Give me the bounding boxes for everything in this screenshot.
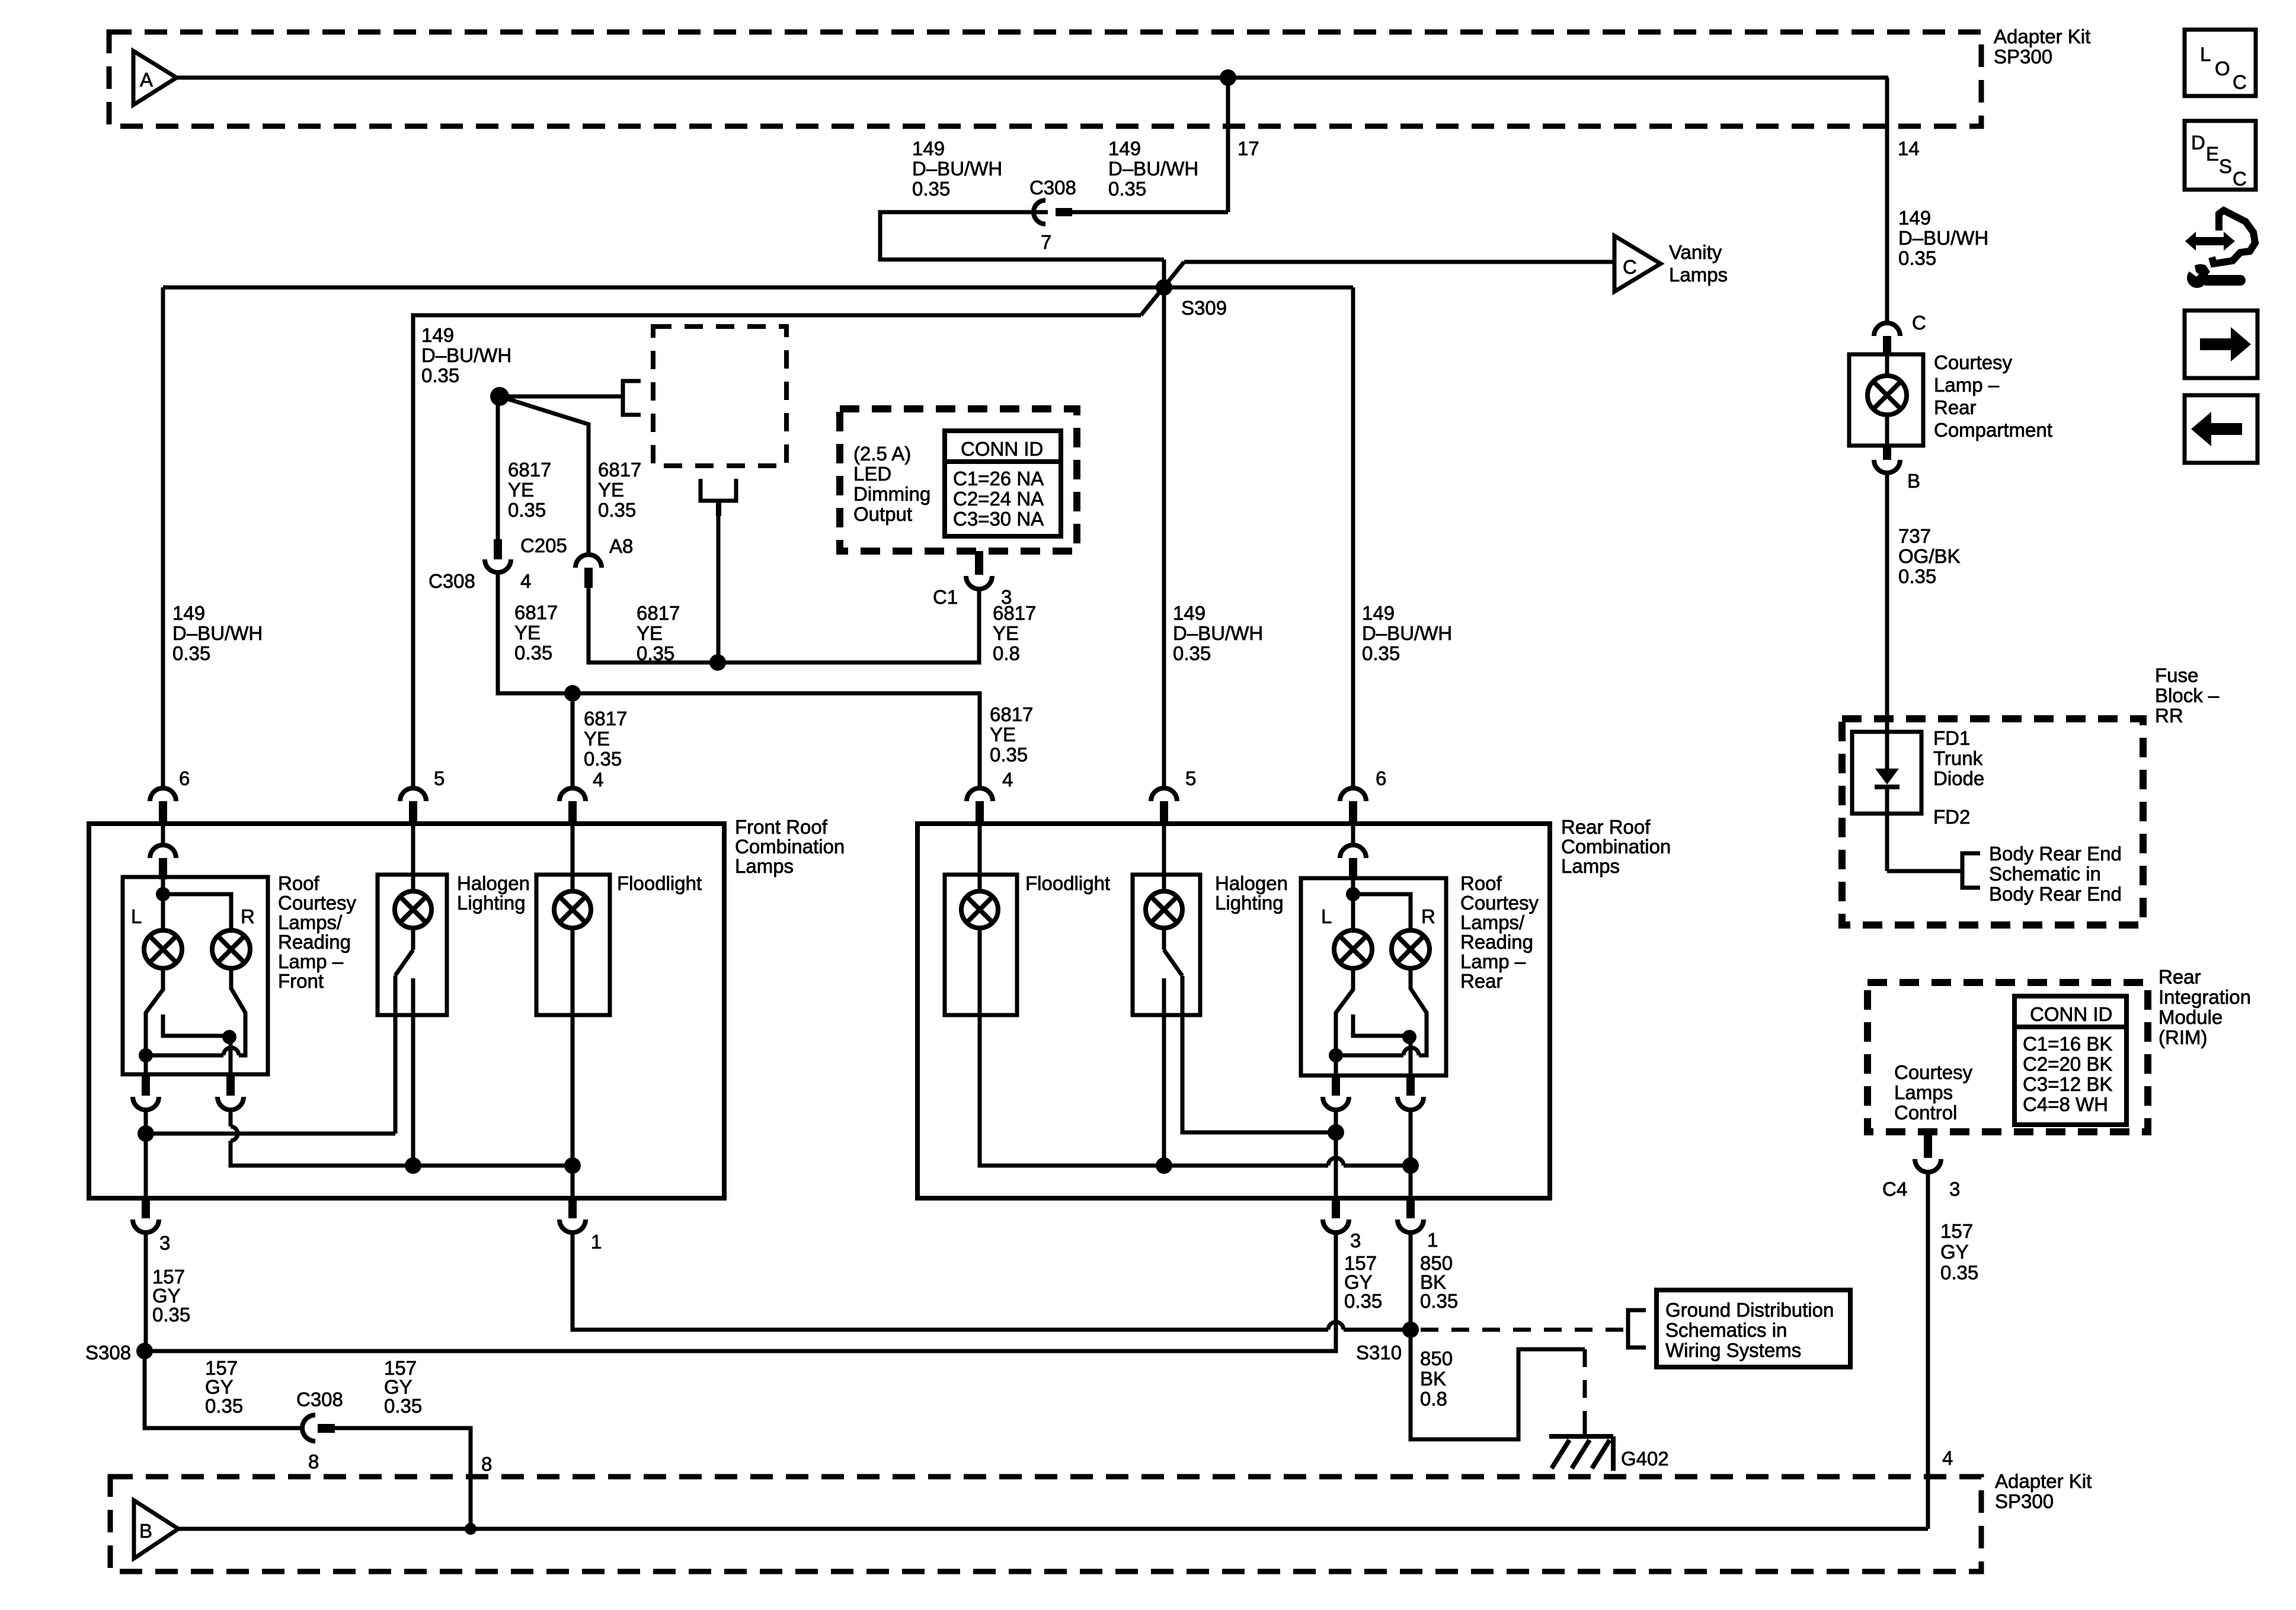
svg-text:Combination: Combination bbox=[735, 836, 845, 857]
svg-text:YE: YE bbox=[993, 622, 1019, 644]
inline connector C308 pin 7 (male terminal) bbox=[1056, 208, 1072, 216]
bulb floodlight (rear) bbox=[961, 891, 998, 928]
terminal prongs at module bottom bbox=[701, 479, 736, 501]
svg-text:737: 737 bbox=[1898, 525, 1931, 547]
wire front pin 3 to S308 bbox=[144, 1233, 148, 1351]
svg-text:Roof: Roof bbox=[1460, 872, 1502, 894]
svg-text:C308: C308 bbox=[296, 1388, 343, 1410]
connector pin 3 (front box bottom) bbox=[142, 1198, 150, 1218]
junction on L exit (front inner) bbox=[139, 1048, 153, 1062]
svg-text:Body Rear End: Body Rear End bbox=[1989, 843, 2122, 865]
svg-text:C: C bbox=[2233, 71, 2247, 93]
svg-text:6817: 6817 bbox=[637, 602, 680, 624]
svg-text:G402: G402 bbox=[1621, 1448, 1669, 1470]
Rear Integration Module box bbox=[1868, 982, 2148, 1132]
inline connector C308 pin 8 (male terminal) bbox=[318, 1424, 335, 1433]
connector A8 (dome + stub) bbox=[575, 555, 602, 568]
wire front pin 1 to S310 bbox=[573, 1233, 1328, 1330]
wire inner link to L exit (rear) bbox=[1336, 1054, 1403, 1058]
wire adapter B (157 circuit) bbox=[178, 1527, 1928, 1531]
svg-text:0.35: 0.35 bbox=[514, 642, 552, 664]
svg-text:Lamps: Lamps bbox=[1561, 855, 1620, 877]
svg-text:6817: 6817 bbox=[598, 459, 641, 481]
svg-text:8: 8 bbox=[308, 1451, 319, 1473]
wire rear pin 3 down to S308 run bbox=[145, 1233, 1336, 1351]
diagonal splice branch to A8 bbox=[500, 396, 589, 555]
CONN ID table (RIM) bbox=[2014, 996, 2126, 1125]
connector R exit (front courtesy) bbox=[226, 1076, 235, 1096]
svg-text:Body Rear End: Body Rear End bbox=[1989, 883, 2122, 905]
wire 737 OG/BK to fuse block bbox=[1885, 473, 1889, 719]
junction H1 on L exit wire (front) bbox=[137, 1125, 154, 1142]
Fuse Block - RR box bbox=[1842, 719, 2143, 925]
terminal bracket (ground distribution reference) bbox=[1628, 1310, 1646, 1347]
svg-text:Lamp –: Lamp – bbox=[1460, 950, 1526, 972]
svg-text:5: 5 bbox=[1185, 767, 1196, 789]
wire into diode bbox=[1885, 719, 1889, 770]
svg-text:Front Roof: Front Roof bbox=[735, 816, 828, 838]
wire R bulb return (front) bbox=[231, 968, 245, 1055]
bulb halogen (rear) bbox=[1146, 891, 1182, 928]
wire R exit down to pin 1 (rear) bbox=[1409, 1110, 1413, 1199]
svg-text:Module: Module bbox=[2159, 1006, 2223, 1028]
svg-text:6817: 6817 bbox=[514, 601, 558, 623]
wire drop to front floodlight pin 4 bbox=[571, 693, 575, 789]
svg-text:OG/BK: OG/BK bbox=[1898, 545, 1961, 567]
svg-text:C4=8 WH: C4=8 WH bbox=[2023, 1093, 2108, 1115]
svg-text:850: 850 bbox=[1420, 1347, 1453, 1369]
svg-text:L: L bbox=[2200, 43, 2211, 65]
junction halogen return on H2 (front) bbox=[405, 1157, 421, 1174]
connector C205/C308 pin 4 (stub + bowl) bbox=[494, 539, 502, 559]
svg-text:Output: Output bbox=[853, 503, 912, 525]
wire C308-7 to S309 bbox=[880, 212, 1164, 260]
inner connector (rear courtesy feed) bbox=[1351, 825, 1355, 846]
svg-text:157: 157 bbox=[1940, 1220, 1973, 1242]
svg-text:3: 3 bbox=[1949, 1178, 1960, 1200]
connector C4 of RIM (stub + bowl) bbox=[1924, 1132, 1932, 1158]
crossover bump (rear inner) bbox=[1403, 1048, 1419, 1055]
svg-text:Halogen: Halogen bbox=[1215, 872, 1288, 894]
svg-text:0.8: 0.8 bbox=[993, 642, 1020, 664]
icon DESC bbox=[2185, 121, 2256, 190]
svg-text:4: 4 bbox=[1002, 769, 1013, 790]
roof courtesy lamps rear inner box bbox=[1301, 878, 1446, 1076]
wire A feed (149 circuit) bbox=[177, 76, 1888, 80]
svg-text:A8: A8 bbox=[609, 535, 633, 557]
svg-text:0.35: 0.35 bbox=[1173, 642, 1211, 664]
terminal stub path to R exit (front inner) bbox=[163, 1014, 229, 1036]
svg-text:B: B bbox=[139, 1520, 152, 1542]
svg-text:Rear Roof: Rear Roof bbox=[1561, 816, 1651, 838]
svg-text:RR: RR bbox=[2155, 705, 2183, 726]
rear roof combination lamps box bbox=[917, 824, 1550, 1198]
wire S310 to ground G402 bbox=[1411, 1330, 1585, 1439]
svg-text:Vanity: Vanity bbox=[1669, 241, 1722, 263]
svg-text:0.35: 0.35 bbox=[637, 642, 674, 664]
svg-text:0.35: 0.35 bbox=[598, 499, 636, 521]
svg-text:C205: C205 bbox=[520, 534, 567, 556]
svg-text:Halogen: Halogen bbox=[457, 872, 530, 894]
svg-text:0.35: 0.35 bbox=[1420, 1290, 1458, 1312]
wire S309 lower-left branch to front halogen pin 5 bbox=[413, 315, 1141, 789]
svg-text:Adapter Kit: Adapter Kit bbox=[1994, 25, 2090, 47]
svg-text:Courtesy: Courtesy bbox=[1460, 892, 1539, 914]
svg-text:C4: C4 bbox=[1882, 1178, 1907, 1200]
svg-text:0.8: 0.8 bbox=[1420, 1388, 1447, 1410]
svg-text:S310: S310 bbox=[1356, 1342, 1402, 1363]
wire from junction down to C308 pin 7 bbox=[1226, 78, 1230, 212]
connector triangle B bbox=[134, 1500, 178, 1558]
svg-text:Courtesy: Courtesy bbox=[1894, 1061, 1973, 1083]
svg-text:B: B bbox=[1907, 470, 1920, 492]
svg-text:0.35: 0.35 bbox=[1940, 1262, 1978, 1283]
svg-text:FD1: FD1 bbox=[1933, 727, 1970, 749]
icon wiring-repair (double arrow + wrench) bbox=[2185, 210, 2255, 288]
svg-text:0.35: 0.35 bbox=[584, 748, 622, 770]
svg-text:Adapter Kit: Adapter Kit bbox=[1995, 1470, 2092, 1492]
splice S308 bbox=[136, 1343, 153, 1359]
svg-text:Front: Front bbox=[278, 970, 324, 992]
svg-text:4: 4 bbox=[1942, 1447, 1953, 1469]
svg-text:L: L bbox=[131, 905, 142, 927]
splice of LED dimming output bbox=[490, 387, 509, 406]
svg-text:0.35: 0.35 bbox=[152, 1304, 190, 1326]
svg-text:Lighting: Lighting bbox=[1215, 892, 1284, 914]
node courtesy feed split (front) bbox=[156, 887, 170, 901]
terminal bracket (body rear end reference) bbox=[1962, 853, 1980, 888]
svg-text:0.35: 0.35 bbox=[1362, 642, 1400, 664]
svg-text:5: 5 bbox=[434, 767, 445, 789]
wire R bulb return (rear) bbox=[1411, 968, 1427, 1055]
courtesy lamp rear compartment box bbox=[1849, 354, 1923, 446]
ground G402 bbox=[1549, 1434, 1613, 1439]
svg-text:Floodlight: Floodlight bbox=[1025, 872, 1110, 894]
svg-text:D–BU/WH: D–BU/WH bbox=[1898, 227, 1988, 249]
svg-text:Rear: Rear bbox=[1934, 396, 1977, 418]
svg-text:Combination: Combination bbox=[1561, 836, 1671, 857]
wire to vanity lamps bbox=[1184, 260, 1614, 264]
svg-text:Diode: Diode bbox=[1933, 767, 1984, 789]
wire front courtesy pin 6 drop bbox=[161, 287, 165, 789]
svg-text:0.35: 0.35 bbox=[1898, 247, 1936, 269]
wire pin 5 into halogen (rear) bbox=[1162, 825, 1166, 892]
connector pin 1 (rear box bottom) bbox=[1406, 1198, 1415, 1218]
svg-text:149: 149 bbox=[1108, 137, 1141, 159]
svg-text:YE: YE bbox=[637, 622, 663, 644]
wire 157 GY from RIM C4 bbox=[1926, 1172, 1930, 1529]
switch stationary contact wire (front) bbox=[411, 978, 415, 1166]
svg-text:Lamp –: Lamp – bbox=[278, 950, 344, 972]
connector pin 1 (front box bottom) bbox=[568, 1198, 577, 1218]
bulb floodlight (front) bbox=[554, 891, 591, 928]
svg-text:Lamps: Lamps bbox=[735, 855, 794, 877]
svg-text:C1=26 NA: C1=26 NA bbox=[953, 468, 1044, 489]
svg-text:Floodlight: Floodlight bbox=[617, 872, 702, 894]
terminal stub path to R exit (rear inner) bbox=[1353, 1014, 1409, 1036]
roof courtesy lamps front inner box bbox=[123, 877, 268, 1074]
svg-text:0.35: 0.35 bbox=[508, 499, 546, 521]
svg-text:SP300: SP300 bbox=[1995, 1490, 2054, 1512]
svg-text:YE: YE bbox=[990, 724, 1016, 745]
dashed wire S310 to ground distribution reference bbox=[1421, 1328, 1628, 1332]
svg-text:BK: BK bbox=[1420, 1368, 1446, 1390]
svg-text:Courtesy: Courtesy bbox=[1934, 351, 2013, 373]
connector triangle A bbox=[133, 51, 177, 105]
wire FD2 to body rear end reference bbox=[1887, 869, 1962, 873]
junction to front floodlight pin 4 bbox=[564, 685, 581, 702]
svg-text:LED: LED bbox=[853, 463, 891, 485]
inline connector C308 pin 8 (female arc) bbox=[302, 1415, 315, 1441]
junction floodlight/H2 (front) bbox=[564, 1157, 581, 1174]
terminal bracket of dimming module bbox=[623, 381, 641, 415]
crossover bump (front inner) bbox=[223, 1048, 239, 1055]
svg-text:D–BU/WH: D–BU/WH bbox=[172, 622, 263, 644]
icon back arrow bbox=[2185, 395, 2257, 463]
icon LOC bbox=[2185, 30, 2256, 96]
wire splice down to C308 pin 4 bbox=[496, 396, 500, 540]
svg-text:Schematics in: Schematics in bbox=[1665, 1319, 1787, 1341]
wire pin 14 down to connector C bbox=[1885, 78, 1889, 324]
bump over rear L exit wire bbox=[1328, 1158, 1344, 1166]
svg-text:YE: YE bbox=[584, 728, 610, 750]
ground distribution schematics box bbox=[1657, 1290, 1850, 1367]
svg-text:L: L bbox=[1321, 905, 1332, 927]
FD1 trunk diode box bbox=[1852, 732, 1921, 814]
svg-text:6817: 6817 bbox=[508, 459, 551, 481]
svg-text:7: 7 bbox=[1041, 231, 1051, 253]
svg-text:Lamps: Lamps bbox=[1894, 1081, 1953, 1103]
wire inner link to L exit (front) bbox=[146, 1054, 223, 1058]
svg-text:Compartment: Compartment bbox=[1934, 419, 2052, 441]
junction on adapter B wire bbox=[465, 1523, 477, 1535]
connector pin 6 (rear box) bbox=[1340, 788, 1366, 801]
svg-text:Lighting: Lighting bbox=[457, 892, 526, 914]
wire S309 vertical (to rear halogen pin 5) bbox=[1162, 260, 1166, 789]
switch stationary contact wire (rear) bbox=[1162, 978, 1166, 1166]
svg-text:CONN ID: CONN ID bbox=[961, 438, 1043, 460]
svg-text:Dimming: Dimming bbox=[853, 483, 930, 505]
bulb L (front courtesy) bbox=[144, 930, 182, 968]
svg-text:D–BU/WH: D–BU/WH bbox=[912, 158, 1002, 180]
svg-text:D: D bbox=[2191, 132, 2205, 153]
connector pin 6 (front box) bbox=[150, 788, 176, 801]
svg-text:6817: 6817 bbox=[584, 708, 627, 729]
junction H2 on R exit wire (rear) bbox=[1402, 1157, 1419, 1174]
bulb halogen (front) bbox=[395, 891, 431, 928]
svg-text:YE: YE bbox=[508, 479, 534, 501]
wire R exit with jog over H1 (front) bbox=[229, 1110, 233, 1126]
wire rear courtesy pin 6 drop bbox=[1351, 287, 1355, 789]
svg-text:Lamps/: Lamps/ bbox=[278, 911, 343, 933]
svg-text:C308: C308 bbox=[428, 570, 475, 592]
svg-text:0.35: 0.35 bbox=[205, 1395, 243, 1417]
connector R exit (rear courtesy) bbox=[1406, 1076, 1415, 1096]
connector C1 of LED module (stub + bowl) bbox=[975, 551, 983, 575]
inner connector (front courtesy feed) bbox=[161, 825, 165, 846]
svg-text:R: R bbox=[1421, 905, 1435, 927]
svg-text:Wiring Systems: Wiring Systems bbox=[1665, 1339, 1801, 1361]
wire pin 4 into floodlight (rear) bbox=[978, 825, 982, 892]
connector pin 5 (front box) bbox=[400, 788, 426, 801]
wire C308-8 to adapter B wire bbox=[335, 1428, 471, 1529]
bulb R (rear courtesy) bbox=[1392, 930, 1430, 968]
svg-text:8: 8 bbox=[481, 1453, 492, 1475]
inline connector C308 pin 7 (female arc) bbox=[1034, 200, 1045, 224]
wire rear pin 1 down to S310 bbox=[1409, 1233, 1413, 1330]
svg-text:6817: 6817 bbox=[993, 602, 1036, 624]
svg-text:D–BU/WH: D–BU/WH bbox=[421, 344, 511, 366]
svg-text:Reading: Reading bbox=[278, 931, 351, 953]
wire L bulb return (rear) bbox=[1336, 968, 1353, 1077]
wire L exit down to pin 3 (front) bbox=[144, 1110, 148, 1199]
switch halogen (rear) bbox=[1162, 928, 1166, 950]
svg-text:6817: 6817 bbox=[990, 703, 1033, 725]
svg-text:GY: GY bbox=[1940, 1241, 1969, 1263]
svg-text:3: 3 bbox=[1350, 1230, 1361, 1251]
node courtesy feed split (rear) bbox=[1346, 887, 1360, 901]
svg-text:D–BU/WH: D–BU/WH bbox=[1362, 622, 1452, 644]
svg-text:Reading: Reading bbox=[1460, 931, 1533, 953]
stub of module bottom terminal bbox=[716, 501, 721, 516]
svg-text:4: 4 bbox=[593, 769, 603, 790]
connector L exit (front courtesy) bbox=[142, 1076, 150, 1096]
bulb L (rear courtesy) bbox=[1334, 930, 1372, 968]
svg-text:CONN ID: CONN ID bbox=[2030, 1003, 2112, 1025]
svg-text:6: 6 bbox=[1376, 767, 1386, 789]
halogen lighting box (front) bbox=[378, 875, 447, 1015]
svg-text:SP300: SP300 bbox=[1994, 46, 2052, 68]
CONN ID table (LED box) bbox=[945, 431, 1061, 536]
Adapter Kit SP300 box (bottom) bbox=[110, 1477, 1981, 1571]
connector pin 5 (rear box) bbox=[1151, 788, 1177, 801]
svg-text:FD2: FD2 bbox=[1933, 806, 1970, 828]
Adapter Kit SP300 box (top) bbox=[109, 32, 1981, 126]
connector B of courtesy lamp (stub + bowl) bbox=[1883, 446, 1891, 460]
wire pin 5 into halogen (front) bbox=[411, 825, 415, 892]
svg-text:0.35: 0.35 bbox=[384, 1395, 422, 1417]
svg-text:C3=12 BK: C3=12 BK bbox=[2023, 1073, 2112, 1095]
svg-text:C1=16 BK: C1=16 BK bbox=[2023, 1033, 2112, 1055]
svg-text:149: 149 bbox=[1362, 602, 1395, 624]
S309 diagonal branch bbox=[1141, 262, 1184, 315]
svg-text:Ground Distribution: Ground Distribution bbox=[1665, 1299, 1834, 1321]
svg-text:(2.5 A): (2.5 A) bbox=[853, 443, 911, 465]
svg-text:C: C bbox=[1623, 256, 1637, 278]
wire L bulb return (front) bbox=[146, 968, 163, 1077]
front roof combination lamps box bbox=[89, 824, 724, 1198]
wire pin 4 into floodlight (front) bbox=[571, 825, 575, 892]
wire splice to module terminal bbox=[500, 395, 623, 399]
bump over rear pin 3 wire bbox=[1328, 1322, 1344, 1330]
svg-text:C: C bbox=[1912, 312, 1926, 334]
svg-text:YE: YE bbox=[598, 479, 624, 501]
icon forward arrow bbox=[2185, 311, 2257, 378]
junction on L exit (rear inner) bbox=[1329, 1048, 1343, 1062]
splice S309 bbox=[1156, 279, 1172, 296]
svg-text:14: 14 bbox=[1898, 137, 1920, 159]
svg-text:R: R bbox=[241, 905, 255, 927]
svg-text:E: E bbox=[2206, 143, 2219, 165]
svg-text:4: 4 bbox=[520, 570, 531, 592]
svg-text:17: 17 bbox=[1237, 137, 1259, 159]
svg-text:YE: YE bbox=[514, 622, 541, 644]
junction on wire A bbox=[1220, 69, 1236, 86]
wire A8 down to C1 run bbox=[589, 587, 979, 662]
svg-text:149: 149 bbox=[421, 324, 454, 346]
svg-text:3: 3 bbox=[159, 1232, 170, 1254]
svg-text:O: O bbox=[2215, 57, 2230, 79]
svg-text:Lamps: Lamps bbox=[1669, 264, 1728, 286]
connector triangle C (vanity lamps) bbox=[1614, 236, 1661, 292]
svg-text:C: C bbox=[2233, 168, 2247, 190]
wire S308 down to C308 pin 8 bbox=[145, 1351, 303, 1428]
connector L exit (rear courtesy) bbox=[1332, 1076, 1340, 1096]
switch halogen (front) bbox=[411, 928, 415, 950]
svg-text:Roof: Roof bbox=[278, 872, 320, 894]
svg-text:149: 149 bbox=[1173, 602, 1205, 624]
bulb courtesy lamp rear compartment bbox=[1868, 376, 1907, 415]
svg-text:1: 1 bbox=[591, 1231, 602, 1253]
wire module bottom terminal down bbox=[717, 514, 721, 662]
svg-text:6: 6 bbox=[179, 767, 190, 789]
junction halogen return on H2 (rear) bbox=[1156, 1157, 1172, 1174]
wire S309 horizontal (front pin 6 to rear pin 6) bbox=[163, 286, 1353, 290]
svg-text:C2=20 BK: C2=20 BK bbox=[2023, 1053, 2112, 1075]
svg-text:C1: C1 bbox=[933, 586, 958, 608]
connector pin 4 (front box) bbox=[559, 788, 586, 801]
svg-text:0.35: 0.35 bbox=[1108, 178, 1146, 200]
svg-text:S308: S308 bbox=[85, 1342, 131, 1363]
LED dimming output box bbox=[840, 409, 1077, 551]
svg-text:D–BU/WH: D–BU/WH bbox=[1173, 622, 1263, 644]
svg-text:Lamps/: Lamps/ bbox=[1460, 911, 1525, 933]
svg-text:Integration: Integration bbox=[2159, 986, 2251, 1008]
svg-text:1: 1 bbox=[1427, 1229, 1438, 1251]
svg-text:S: S bbox=[2219, 155, 2232, 177]
wire floodlight return to pin 1 (front) bbox=[571, 928, 575, 1199]
svg-text:Rear: Rear bbox=[1460, 970, 1503, 992]
svg-text:Trunk: Trunk bbox=[1933, 747, 1983, 769]
floodlight box (front) bbox=[536, 875, 610, 1015]
svg-text:Rear: Rear bbox=[2159, 966, 2201, 988]
svg-text:0.35: 0.35 bbox=[1898, 565, 1936, 587]
svg-text:C308: C308 bbox=[1029, 177, 1076, 199]
halogen lighting box (rear) bbox=[1133, 875, 1200, 1015]
svg-text:0.35: 0.35 bbox=[421, 364, 459, 386]
wire floodlight return (rear) collector H2 bbox=[980, 928, 1328, 1166]
svg-text:C3=30 NA: C3=30 NA bbox=[953, 508, 1044, 530]
bulb R (front courtesy) bbox=[212, 930, 250, 968]
wire L exit down to pin 3 (rear) bbox=[1334, 1110, 1338, 1199]
floodlight box (rear) bbox=[945, 875, 1017, 1015]
svg-text:0.35: 0.35 bbox=[990, 744, 1028, 766]
svg-text:C2=24 NA: C2=24 NA bbox=[953, 488, 1044, 510]
svg-text:Schematic in: Schematic in bbox=[1989, 863, 2101, 885]
svg-text:Block –: Block – bbox=[2155, 684, 2220, 706]
splice S310 bbox=[1402, 1321, 1419, 1338]
svg-text:Lamp –: Lamp – bbox=[1934, 374, 2000, 396]
junction of module terminal wire bbox=[709, 654, 726, 671]
connector pin 3 (rear box bottom) bbox=[1332, 1198, 1340, 1218]
svg-text:S309: S309 bbox=[1181, 297, 1227, 319]
svg-text:0.35: 0.35 bbox=[912, 178, 950, 200]
svg-text:149: 149 bbox=[172, 602, 205, 624]
svg-text:0.35: 0.35 bbox=[1344, 1290, 1382, 1312]
svg-text:(RIM): (RIM) bbox=[2159, 1026, 2207, 1048]
connector C of courtesy lamp (dome) bbox=[1874, 323, 1900, 336]
svg-text:0.35: 0.35 bbox=[172, 642, 210, 664]
